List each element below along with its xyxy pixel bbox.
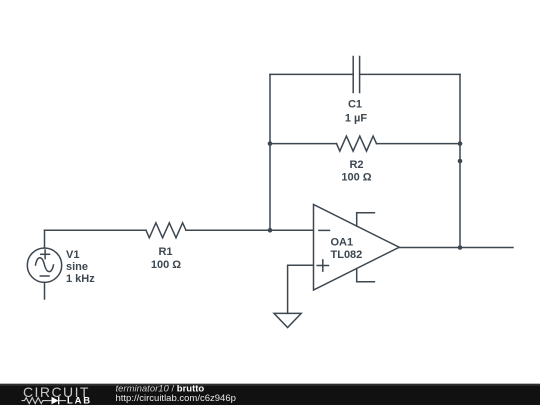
wire: R2 branch left segment [270,143,337,145]
junction: right node R2 branch (460,143.6) [458,141,463,146]
svg-text:LAB: LAB [67,395,92,405]
resistor R2 [337,136,377,151]
wire: top feedback (C1) right segment [360,73,460,75]
junction: right node below R2 (460,161) [458,159,463,164]
svg-text:1 kHz: 1 kHz [66,273,95,285]
op-amp OA1 non-inverting input marker (+) [317,260,328,271]
op-amp OA1 negative supply pin stub [357,269,375,282]
junction: inverting input node (270,230.3) [268,228,273,233]
svg-text:R2: R2 [349,159,363,171]
svg-text:sine: sine [66,261,88,273]
voltage source V1 [27,248,61,282]
wire: output net [399,247,513,249]
footer bar [0,384,540,405]
wire: right feedback vertical at x=460 [459,74,461,247]
CircuitLab logo diode [47,397,66,405]
junction: output node (460,247.5) [458,245,463,250]
svg-text:R1: R1 [158,246,172,258]
svg-text:TL082: TL082 [331,249,363,261]
svg-text:100 Ω: 100 Ω [151,259,181,271]
svg-text:100 Ω: 100 Ω [341,172,371,184]
resistor R1 [146,223,186,238]
wire: non-inverting input to ground [288,265,314,313]
svg-text:V1: V1 [66,249,79,261]
svg-text:http://circuitlab.com/c6z946p: http://circuitlab.com/c6z946p [116,393,236,404]
svg-text:1 µF: 1 µF [345,112,368,124]
op-amp OA1 inverting input marker (−) [319,229,330,231]
capacitor C1 [353,57,359,93]
wire: V1 bottom terminal [44,283,46,300]
junction: left node R2/C1 branch (270,143.6) [268,141,273,146]
op-amp OA1 positive supply pin stub [357,213,375,227]
op-amp OA1 body [314,205,400,291]
svg-text:OA1: OA1 [331,237,354,249]
svg-text:C1: C1 [348,98,362,110]
wire: top feedback (C1) left segment [270,73,353,75]
wire: R2 branch right segment [377,143,461,145]
ground symbol [274,313,301,327]
CircuitLab logo resistor zigzag [22,398,48,404]
wire: input net from V1 top through R1 to op-amp inverting input [45,230,314,248]
wire: left feedback vertical at x=270 [269,74,271,230]
